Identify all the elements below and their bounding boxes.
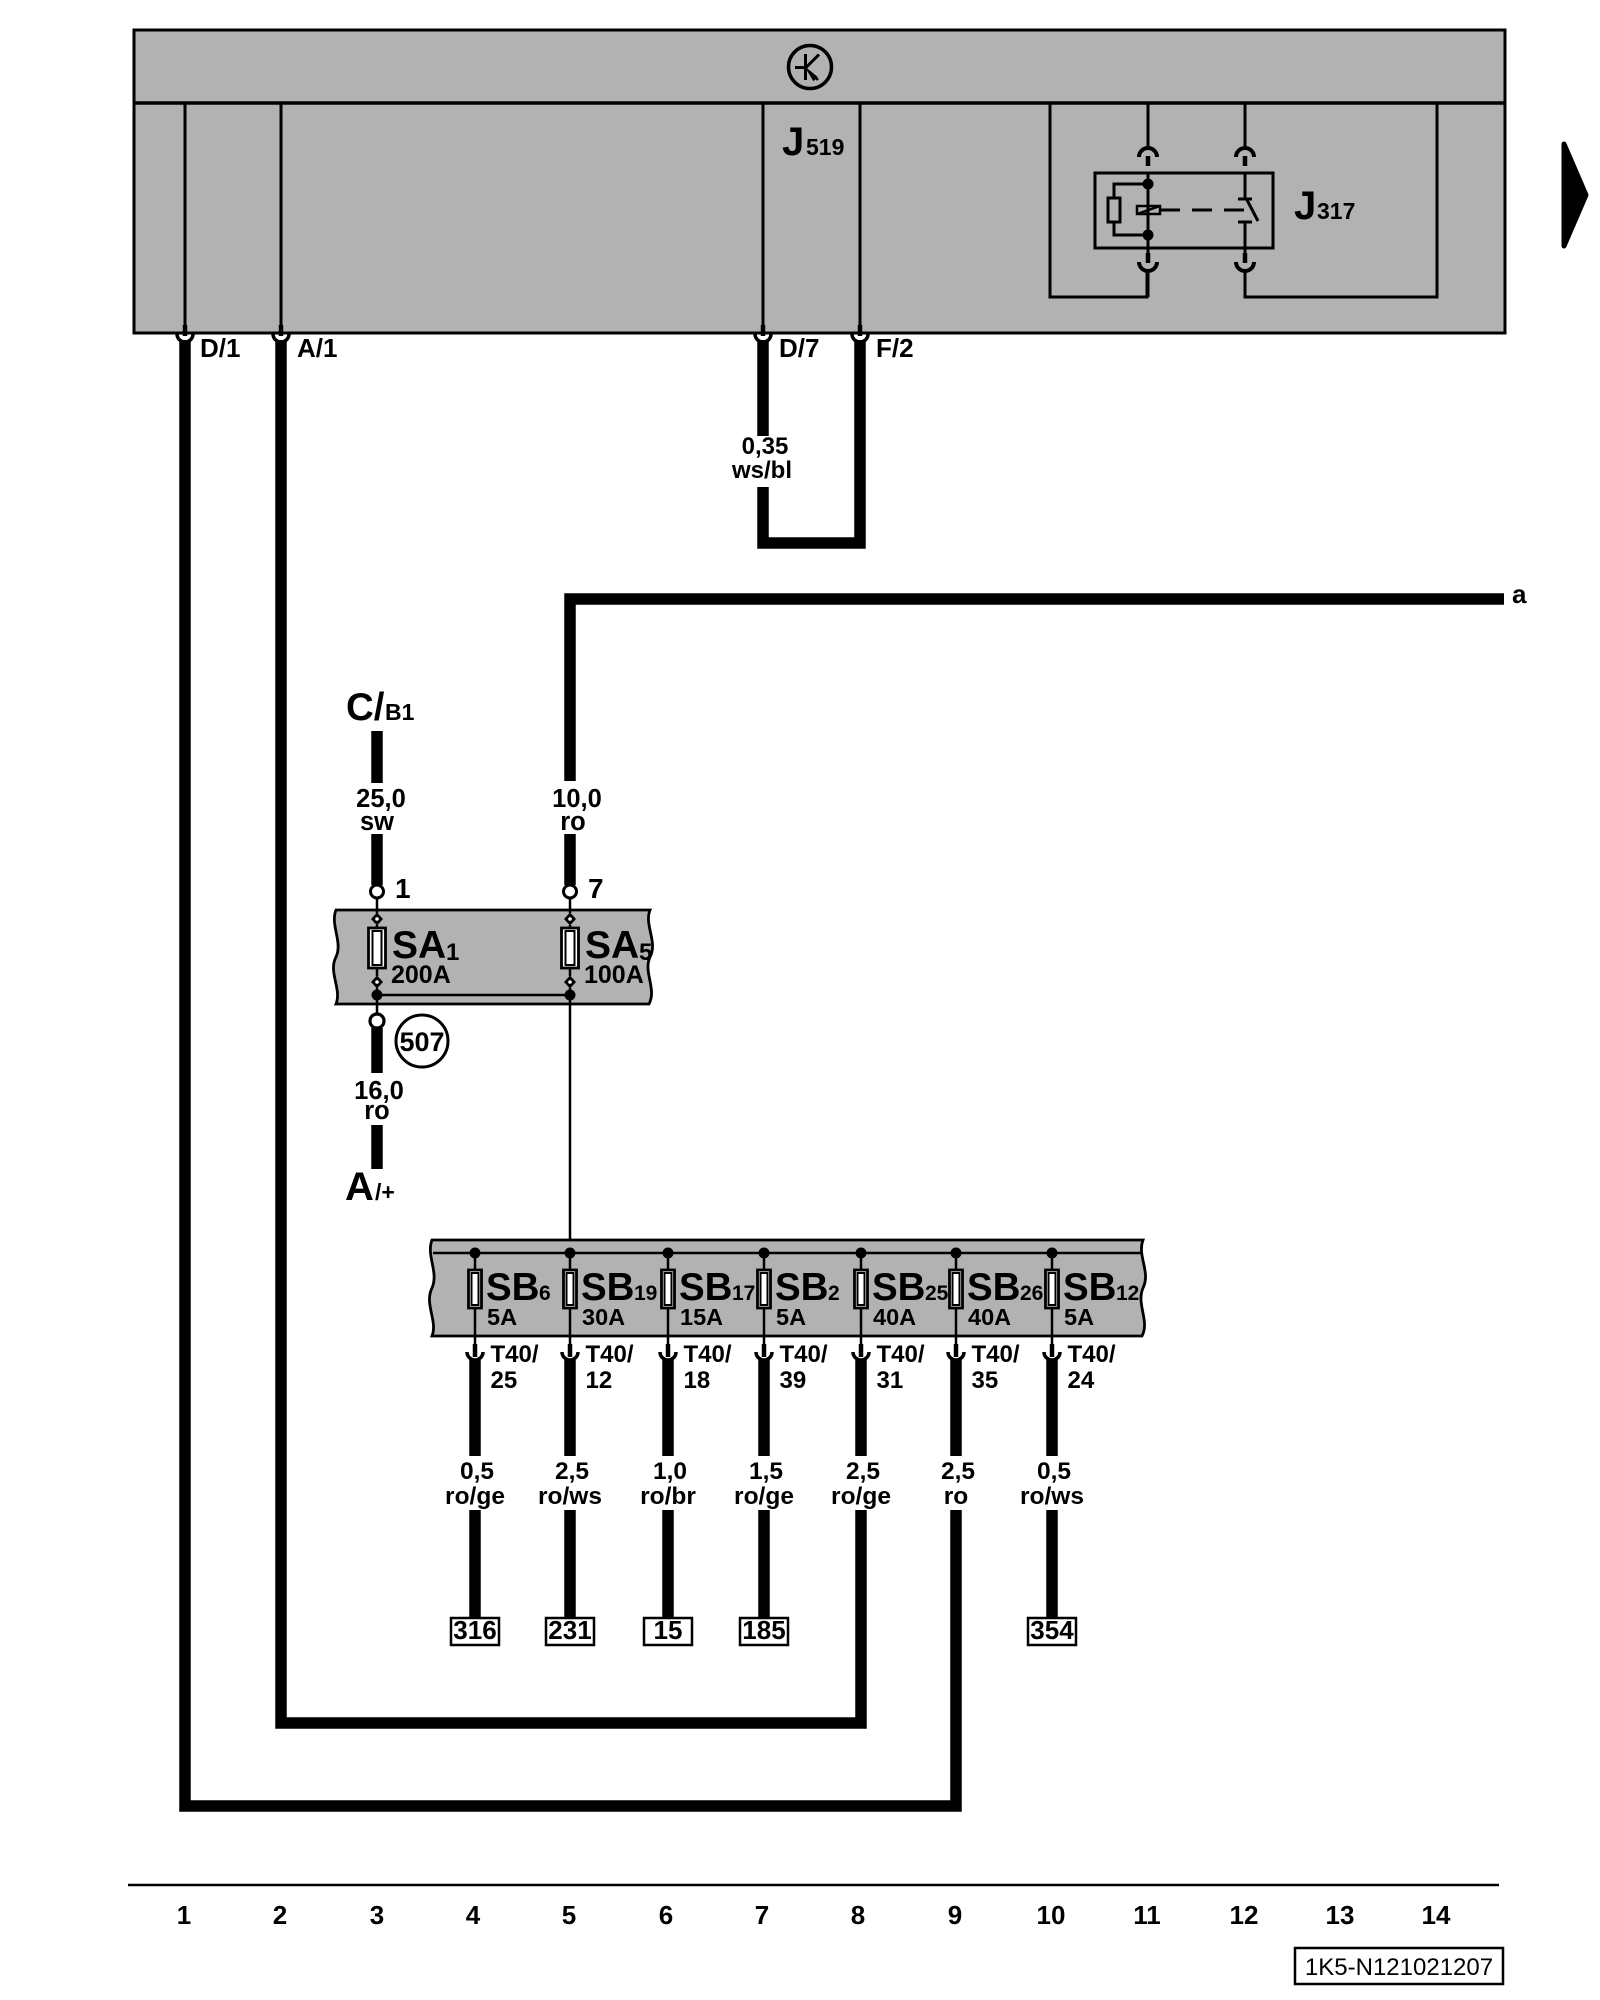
svg-text:1,0: 1,0 xyxy=(653,1458,687,1485)
svg-text:25: 25 xyxy=(491,1367,518,1394)
svg-text:SB: SB xyxy=(581,1266,634,1309)
svg-text:T40/: T40/ xyxy=(1068,1341,1116,1368)
svg-text:317: 317 xyxy=(1317,198,1355,224)
svg-text:11: 11 xyxy=(1133,1900,1161,1930)
svg-text:1: 1 xyxy=(177,1900,191,1930)
svg-text:18: 18 xyxy=(684,1367,711,1394)
svg-text:/+: /+ xyxy=(375,1179,395,1205)
svg-text:0,5: 0,5 xyxy=(1037,1458,1071,1485)
svg-text:6: 6 xyxy=(659,1900,673,1930)
svg-text:17: 17 xyxy=(732,1282,755,1305)
svg-text:5A: 5A xyxy=(776,1304,806,1330)
svg-text:2: 2 xyxy=(273,1900,287,1930)
svg-text:A/1: A/1 xyxy=(297,333,337,363)
svg-text:12: 12 xyxy=(1116,1282,1139,1305)
svg-text:519: 519 xyxy=(806,134,844,160)
svg-text:sw: sw xyxy=(360,808,394,836)
svg-text:2,5: 2,5 xyxy=(846,1458,880,1485)
svg-text:a: a xyxy=(1512,579,1527,609)
svg-text:15A: 15A xyxy=(680,1304,723,1330)
svg-text:0,35: 0,35 xyxy=(742,433,789,460)
svg-text:J: J xyxy=(1294,184,1316,228)
svg-text:5: 5 xyxy=(562,1900,576,1930)
svg-text:4: 4 xyxy=(466,1900,481,1930)
svg-text:ro/ge: ro/ge xyxy=(445,1483,505,1510)
svg-text:ro: ro xyxy=(560,808,586,836)
svg-text:5A: 5A xyxy=(487,1304,517,1330)
svg-text:SB: SB xyxy=(486,1266,539,1309)
svg-text:SB: SB xyxy=(872,1266,925,1309)
svg-text:507: 507 xyxy=(399,1027,444,1057)
svg-text:15: 15 xyxy=(654,1615,683,1645)
svg-text:24: 24 xyxy=(1068,1367,1095,1394)
svg-text:T40/: T40/ xyxy=(491,1341,539,1368)
svg-text:12: 12 xyxy=(586,1367,613,1394)
svg-text:SB: SB xyxy=(679,1266,732,1309)
svg-text:ro/ws: ro/ws xyxy=(538,1483,602,1510)
svg-text:T40/: T40/ xyxy=(972,1341,1020,1368)
svg-text:F/2: F/2 xyxy=(876,333,914,363)
svg-text:7: 7 xyxy=(588,873,604,904)
svg-text:T40/: T40/ xyxy=(684,1341,732,1368)
svg-text:39: 39 xyxy=(780,1367,807,1394)
svg-text:A: A xyxy=(345,1165,374,1209)
svg-text:7: 7 xyxy=(755,1900,769,1930)
svg-text:40A: 40A xyxy=(873,1304,916,1330)
svg-text:J: J xyxy=(782,120,804,164)
svg-text:SB: SB xyxy=(967,1266,1020,1309)
svg-text:10: 10 xyxy=(1037,1900,1066,1930)
svg-text:5A: 5A xyxy=(1064,1304,1094,1330)
svg-text:1,5: 1,5 xyxy=(749,1458,783,1485)
svg-text:ro/ws: ro/ws xyxy=(1020,1483,1084,1510)
svg-text:6: 6 xyxy=(539,1282,551,1305)
svg-text:35: 35 xyxy=(972,1367,999,1394)
svg-text:185: 185 xyxy=(742,1615,785,1645)
svg-text:1: 1 xyxy=(395,873,411,904)
svg-text:40A: 40A xyxy=(968,1304,1011,1330)
svg-text:ro/br: ro/br xyxy=(640,1483,696,1510)
svg-text:3: 3 xyxy=(370,1900,384,1930)
svg-text:231: 231 xyxy=(548,1615,591,1645)
svg-text:C/: C/ xyxy=(346,686,385,729)
svg-text:ro/ge: ro/ge xyxy=(734,1483,794,1510)
svg-text:B1: B1 xyxy=(385,699,415,725)
svg-text:2,5: 2,5 xyxy=(941,1458,975,1485)
svg-text:354: 354 xyxy=(1030,1615,1074,1645)
svg-text:0,5: 0,5 xyxy=(460,1458,494,1485)
svg-text:12: 12 xyxy=(1230,1900,1259,1930)
svg-text:2: 2 xyxy=(828,1282,840,1305)
svg-text:100A: 100A xyxy=(584,961,644,989)
svg-text:14: 14 xyxy=(1422,1900,1451,1930)
svg-text:ro/ge: ro/ge xyxy=(831,1483,891,1510)
svg-text:T40/: T40/ xyxy=(877,1341,925,1368)
svg-text:SB: SB xyxy=(775,1266,828,1309)
svg-text:9: 9 xyxy=(948,1900,962,1930)
svg-text:1K5-N121021207: 1K5-N121021207 xyxy=(1305,1954,1493,1981)
svg-text:T40/: T40/ xyxy=(586,1341,634,1368)
svg-text:13: 13 xyxy=(1326,1900,1355,1930)
svg-text:D/7: D/7 xyxy=(779,333,819,363)
svg-text:T40/: T40/ xyxy=(780,1341,828,1368)
svg-text:SB: SB xyxy=(1063,1266,1116,1309)
svg-text:ro: ro xyxy=(364,1097,390,1125)
svg-text:200A: 200A xyxy=(391,961,451,989)
svg-text:316: 316 xyxy=(453,1615,496,1645)
svg-text:19: 19 xyxy=(634,1282,657,1305)
svg-text:ws/bl: ws/bl xyxy=(731,457,792,484)
svg-text:30A: 30A xyxy=(582,1304,625,1330)
svg-text:25: 25 xyxy=(925,1282,949,1305)
svg-text:31: 31 xyxy=(877,1367,904,1394)
svg-text:ro: ro xyxy=(944,1483,969,1510)
svg-text:8: 8 xyxy=(851,1900,865,1930)
svg-text:2,5: 2,5 xyxy=(555,1458,589,1485)
svg-text:D/1: D/1 xyxy=(200,333,240,363)
svg-text:26: 26 xyxy=(1020,1282,1043,1305)
